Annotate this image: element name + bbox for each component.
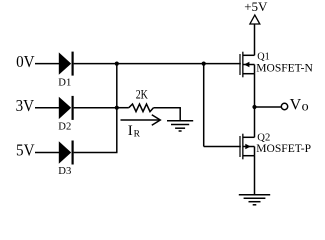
power +5V triangle symbol xyxy=(250,15,260,24)
wire output node to Q2 xyxy=(254,107,256,137)
label I_R xyxy=(128,123,141,140)
node output junction dot xyxy=(252,105,256,109)
label Vo xyxy=(290,97,309,115)
current arrow I_R xyxy=(121,115,161,126)
svg-text:o: o xyxy=(302,100,309,115)
svg-text:D3: D3 xyxy=(58,165,71,177)
diode D1 xyxy=(59,52,73,76)
svg-text:0V: 0V xyxy=(16,52,35,71)
svg-text:+5V: +5V xyxy=(244,0,268,14)
wire +5V to Q1 drain xyxy=(254,24,256,55)
node output terminal circle xyxy=(281,103,287,109)
wire gate bus vertical xyxy=(203,64,205,147)
wire Q1 gate lead xyxy=(204,63,241,65)
node junction dot at gate bus xyxy=(202,62,206,66)
wire D2 cathode to bus xyxy=(74,107,117,109)
wire 5V input to D3 anode xyxy=(35,152,60,154)
node junction dot at 3V row xyxy=(115,106,119,110)
svg-text:I: I xyxy=(128,123,133,139)
svg-text:MOSFET-P: MOSFET-P xyxy=(256,141,311,155)
wire D1 cathode to bus xyxy=(74,63,117,65)
transistor Q1 (NMOS) xyxy=(239,52,254,78)
diode D3 xyxy=(59,141,73,165)
wire bus to gate bus xyxy=(117,63,204,65)
svg-text:D1: D1 xyxy=(58,76,71,88)
svg-text:5V: 5V xyxy=(16,141,35,160)
ground G2 (under Q2) xyxy=(239,195,270,205)
wire Q2 gate lead xyxy=(204,146,241,148)
wire vertical bus xyxy=(116,64,118,153)
svg-text:V: V xyxy=(290,97,302,114)
wire output node to terminal xyxy=(255,106,282,108)
wire Q2 to ground xyxy=(254,156,256,195)
wire Q1 source to output node xyxy=(254,74,256,107)
svg-text:R: R xyxy=(134,130,141,140)
diode D2 xyxy=(59,96,73,120)
wire 3V input to D2 anode xyxy=(35,107,60,109)
ground G1 (resistor) xyxy=(167,108,193,131)
svg-text:3V: 3V xyxy=(16,96,35,115)
svg-text:MOSFET-N: MOSFET-N xyxy=(256,60,313,74)
svg-text:2K: 2K xyxy=(136,88,148,102)
transistor Q2 (PMOS) xyxy=(239,134,254,160)
resistor R 2K xyxy=(117,104,181,112)
wire D3 cathode to bus corner xyxy=(74,152,118,154)
wire 0V input to D1 anode xyxy=(35,63,60,65)
node junction dot at 0V row xyxy=(115,62,119,66)
svg-text:D2: D2 xyxy=(58,121,71,133)
